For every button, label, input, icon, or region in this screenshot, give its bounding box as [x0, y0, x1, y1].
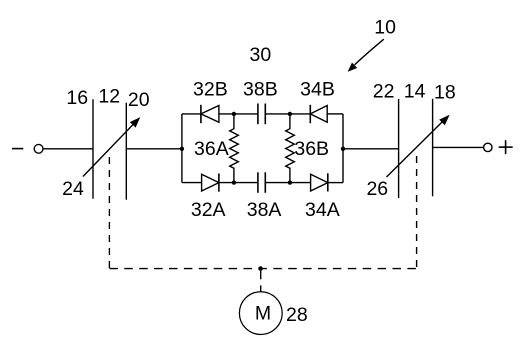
negative terminal — [34, 144, 43, 153]
wire top rail segment 1 — [182, 113, 201, 115]
bridge left edge wire — [181, 114, 183, 183]
positive terminal — [484, 143, 492, 151]
wire bridge 30 to capacitor 14 — [343, 148, 399, 150]
node bridge left junction — [180, 147, 184, 151]
minus polarity sign — [12, 148, 23, 150]
svg-text:18: 18 — [434, 81, 456, 103]
arrow 24 adjustment of capacitor 12 — [83, 119, 139, 177]
svg-text:26: 26 — [366, 178, 388, 200]
node bottom of resistor 36A — [232, 180, 236, 184]
resistor 36A — [230, 114, 239, 183]
svg-text:10: 10 — [374, 17, 396, 39]
wire bottom rail segment 3 — [265, 182, 310, 184]
svg-text:34A: 34A — [305, 199, 340, 221]
svg-text:22: 22 — [373, 80, 395, 102]
node top of resistor 36B — [288, 112, 292, 116]
dashed control line from capacitor 14 — [416, 156, 418, 269]
capacitor 38B — [258, 104, 265, 125]
arrow 26 adjustment of capacitor 14 — [387, 116, 449, 177]
wire capacitor 12 to bridge 30 — [126, 148, 182, 150]
motor M 28 — [239, 292, 282, 335]
svg-text:38B: 38B — [243, 79, 278, 101]
wire top rail segment 2 — [219, 113, 258, 115]
wire bottom rail segment 2 — [219, 182, 258, 184]
diode 34A — [311, 173, 328, 191]
dashed wire control bus to motor 28 — [260, 271, 262, 279]
svg-text:36B: 36B — [294, 138, 329, 160]
dashed control bus wire — [109, 268, 416, 270]
svg-text:12: 12 — [98, 85, 120, 107]
wire top rail segment 3 — [265, 113, 310, 115]
node motor tap on control bus — [258, 266, 263, 271]
capacitor 38A — [258, 172, 265, 193]
svg-text:28: 28 — [286, 304, 308, 326]
reference arrow for 10 — [349, 39, 384, 70]
svg-text:32B: 32B — [193, 79, 228, 101]
wire bottom rail segment 1 — [182, 182, 202, 184]
capacitor 12 plate 16 — [92, 99, 94, 198]
svg-text:20: 20 — [128, 89, 150, 111]
wire bottom rail segment 4 — [328, 182, 343, 184]
diode 32B — [201, 105, 219, 123]
svg-text:24: 24 — [62, 178, 84, 200]
plus polarity sign — [499, 140, 513, 154]
svg-text:16: 16 — [66, 87, 88, 109]
svg-text:30: 30 — [250, 44, 272, 66]
svg-text:34B: 34B — [300, 79, 335, 101]
node bridge right junction — [341, 147, 345, 151]
svg-text:38A: 38A — [247, 199, 282, 221]
capacitor 12 plate 20 — [125, 103, 127, 200]
wire capacitor 14 to positive terminal — [433, 146, 484, 148]
dashed control line from capacitor 12 — [108, 157, 110, 269]
svg-text:36A: 36A — [194, 138, 229, 160]
node top of resistor 36A — [232, 112, 236, 116]
resistor 36B — [286, 114, 295, 183]
node bottom of resistor 36B — [288, 180, 292, 184]
bridge right edge wire — [342, 114, 344, 183]
svg-text:14: 14 — [404, 81, 426, 103]
svg-text:32A: 32A — [191, 199, 226, 221]
capacitor 14 plate 22 — [398, 99, 400, 198]
diode 32A — [202, 174, 219, 192]
wire negative terminal to capacitor 12 — [43, 148, 93, 150]
diode 34B — [310, 105, 327, 123]
wire top rail segment 4 — [327, 113, 343, 115]
svg-text:M: M — [255, 303, 271, 325]
capacitor 14 plate 18 — [432, 99, 434, 197]
